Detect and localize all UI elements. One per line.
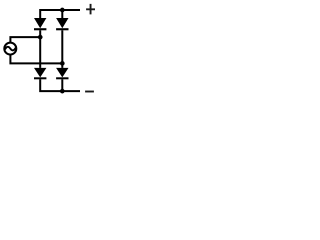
plus output terminal label <box>86 4 95 15</box>
wire bottom rail with corner from left branch <box>40 79 80 91</box>
diode D2 top-right triangle <box>56 18 68 28</box>
diode D1 cathode bar <box>34 28 46 30</box>
diode D4 bottom-right triangle <box>56 68 68 78</box>
wire right branch top stub <box>61 10 63 19</box>
junction dot bottom rail <box>60 89 65 94</box>
junction dot left branch AC tap <box>38 35 43 40</box>
wire right branch middle <box>61 30 63 68</box>
diode D3 bottom-left triangle <box>34 68 46 78</box>
diode D2 cathode bar <box>56 28 68 30</box>
wire left branch middle <box>39 30 41 68</box>
AC source V1 circle <box>4 43 16 55</box>
wire AC source bottom lead <box>10 54 62 63</box>
junction dot right branch AC tap <box>60 61 65 66</box>
wire AC source top lead <box>10 37 40 43</box>
minus output terminal label <box>85 91 94 93</box>
wire right branch bottom stub <box>61 79 63 91</box>
wire top rail with corner into left branch <box>40 10 80 19</box>
diode D4 cathode bar <box>56 77 68 79</box>
AC source V1 sine symbol <box>5 47 16 51</box>
junction dot top rail <box>60 8 65 13</box>
diode D1 top-left triangle <box>34 18 46 28</box>
diode D3 cathode bar <box>34 77 46 79</box>
